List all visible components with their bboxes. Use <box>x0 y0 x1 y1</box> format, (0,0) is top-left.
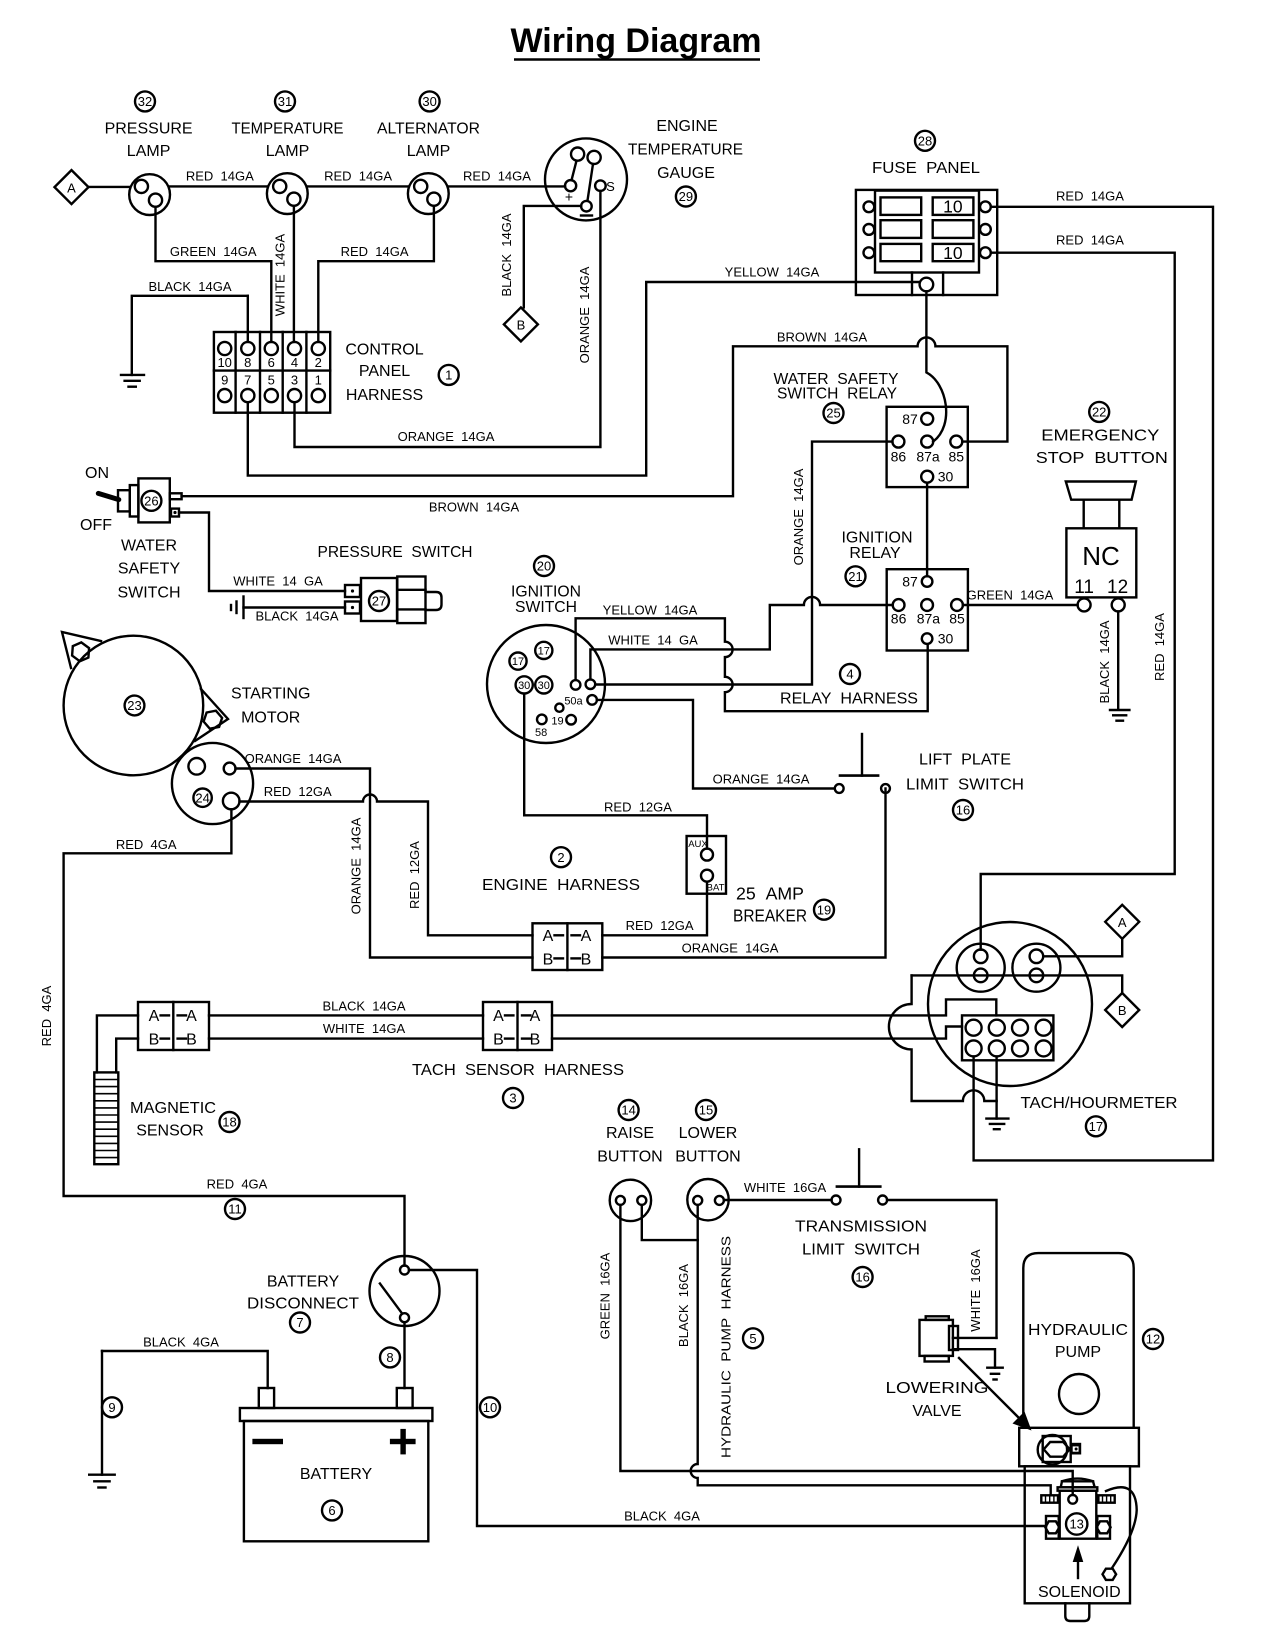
svg-text:HYDRAULIC: HYDRAULIC <box>1028 1322 1128 1339</box>
svg-text:32: 32 <box>138 94 152 109</box>
svg-text:1: 1 <box>445 368 452 383</box>
svg-text:26: 26 <box>144 493 158 508</box>
svg-text:SWITCH: SWITCH <box>515 599 577 616</box>
svg-text:BUTTON: BUTTON <box>597 1149 662 1166</box>
svg-text:10: 10 <box>943 243 963 263</box>
svg-text:11: 11 <box>1074 577 1094 598</box>
svg-text:23: 23 <box>127 698 141 713</box>
svg-text:A: A <box>493 1008 504 1025</box>
svg-text:3: 3 <box>509 1091 516 1106</box>
svg-text:BATTERY: BATTERY <box>267 1274 340 1291</box>
svg-text:ON: ON <box>85 465 109 482</box>
svg-text:WHITE 16GA: WHITE 16GA <box>744 1180 827 1195</box>
svg-text:10: 10 <box>217 355 231 370</box>
svg-text:YELLOW 14GA: YELLOW 14GA <box>725 265 820 280</box>
svg-text:GREEN 14GA: GREEN 14GA <box>967 588 1054 603</box>
svg-text:5: 5 <box>749 1331 756 1346</box>
svg-text:RED 12GA: RED 12GA <box>264 784 332 799</box>
svg-text:2: 2 <box>315 355 322 370</box>
svg-text:BLACK 14GA: BLACK 14GA <box>499 213 514 296</box>
svg-text:WHITE 14 GA: WHITE 14 GA <box>233 574 323 589</box>
svg-text:BLACK 14GA: BLACK 14GA <box>148 279 231 294</box>
svg-text:LIFT PLATE: LIFT PLATE <box>919 752 1011 769</box>
svg-text:B: B <box>149 1032 160 1049</box>
svg-text:WATER: WATER <box>121 538 177 555</box>
svg-text:HARNESS: HARNESS <box>346 387 423 404</box>
svg-text:SWITCH RELAY: SWITCH RELAY <box>777 386 897 403</box>
svg-text:30: 30 <box>938 631 954 647</box>
svg-text:Wiring Diagram: Wiring Diagram <box>511 22 762 60</box>
svg-text:IGNITION: IGNITION <box>511 584 581 601</box>
svg-text:BREAKER: BREAKER <box>733 906 807 926</box>
svg-text:ORANGE 14GA: ORANGE 14GA <box>398 429 495 444</box>
svg-text:LAMP: LAMP <box>127 143 171 160</box>
svg-text:BLACK 4GA: BLACK 4GA <box>624 1509 700 1524</box>
svg-text:RELAY: RELAY <box>849 545 901 562</box>
svg-text:19: 19 <box>817 902 831 917</box>
svg-text:MAGNETIC: MAGNETIC <box>130 1100 216 1117</box>
svg-text:LAMP: LAMP <box>407 143 451 160</box>
svg-text:IGNITION: IGNITION <box>841 530 912 547</box>
svg-text:86: 86 <box>891 449 907 465</box>
svg-text:A: A <box>186 1008 197 1025</box>
svg-text:ORANGE 14GA: ORANGE 14GA <box>245 751 342 766</box>
svg-text:WHITE 14GA: WHITE 14GA <box>273 234 288 317</box>
svg-text:YELLOW 14GA: YELLOW 14GA <box>603 603 698 618</box>
svg-text:16: 16 <box>855 1270 869 1285</box>
svg-text:12: 12 <box>1107 577 1128 598</box>
svg-text:ORANGE 14GA: ORANGE 14GA <box>682 941 779 956</box>
svg-text:B: B <box>517 318 526 333</box>
svg-text:RED 14GA: RED 14GA <box>1056 233 1124 248</box>
svg-text:+: + <box>565 189 573 205</box>
svg-text:HYDRAULIC PUMP HARNESS: HYDRAULIC PUMP HARNESS <box>719 1236 734 1458</box>
svg-text:ORANGE 14GA: ORANGE 14GA <box>713 772 810 787</box>
svg-text:RED 14GA: RED 14GA <box>1152 613 1167 681</box>
svg-text:17: 17 <box>538 645 550 657</box>
svg-text:RED 12GA: RED 12GA <box>604 800 672 815</box>
svg-text:87a: 87a <box>917 611 941 627</box>
svg-text:VALVE: VALVE <box>912 1403 961 1420</box>
svg-text:27: 27 <box>372 594 386 609</box>
svg-text:RED 4GA: RED 4GA <box>116 837 177 852</box>
svg-text:28: 28 <box>918 133 932 148</box>
svg-text:BATTERY: BATTERY <box>300 1466 373 1483</box>
svg-text:LAMP: LAMP <box>266 143 310 160</box>
svg-text:RED 14GA: RED 14GA <box>1056 189 1124 204</box>
svg-text:ORANGE 14GA: ORANGE 14GA <box>791 468 806 565</box>
svg-text:CONTROL: CONTROL <box>345 342 423 359</box>
svg-text:B: B <box>581 952 592 969</box>
svg-text:4: 4 <box>846 667 853 682</box>
svg-text:GREEN 16GA: GREEN 16GA <box>598 1252 613 1339</box>
svg-text:9: 9 <box>221 373 228 388</box>
svg-text:6: 6 <box>268 355 275 370</box>
svg-text:TRANSMISSION: TRANSMISSION <box>795 1219 927 1236</box>
svg-text:7: 7 <box>296 1315 303 1330</box>
svg-text:11: 11 <box>228 1202 242 1217</box>
svg-text:5: 5 <box>268 373 275 388</box>
svg-text:TEMPERATURE: TEMPERATURE <box>628 142 743 159</box>
svg-text:85: 85 <box>949 611 965 627</box>
svg-text:B: B <box>493 1032 504 1049</box>
svg-text:10: 10 <box>943 197 963 217</box>
svg-text:SAFETY: SAFETY <box>118 561 181 578</box>
svg-text:B: B <box>543 952 554 969</box>
svg-text:30: 30 <box>422 94 436 109</box>
svg-text:25 AMP: 25 AMP <box>736 884 804 904</box>
svg-text:RED 14GA: RED 14GA <box>324 169 392 184</box>
svg-text:RED 12GA: RED 12GA <box>626 918 694 933</box>
svg-text:13: 13 <box>1069 1517 1083 1532</box>
svg-text:EMERGENCY: EMERGENCY <box>1041 428 1159 445</box>
svg-text:PUMP: PUMP <box>1055 1344 1101 1361</box>
svg-text:B: B <box>1118 1003 1127 1018</box>
svg-text:RED 12GA: RED 12GA <box>407 841 422 909</box>
svg-text:ORANGE 14GA: ORANGE 14GA <box>577 266 592 363</box>
svg-text:9: 9 <box>108 1400 115 1415</box>
svg-text:BROWN 14GA: BROWN 14GA <box>777 330 868 345</box>
svg-text:RED 14GA: RED 14GA <box>341 244 409 259</box>
svg-text:TEMPERATURE: TEMPERATURE <box>232 120 344 137</box>
svg-text:SOLENOID: SOLENOID <box>1038 1584 1121 1601</box>
svg-text:58: 58 <box>535 727 547 739</box>
svg-text:FUSE PANEL: FUSE PANEL <box>872 160 980 177</box>
svg-text:TACH SENSOR HARNESS: TACH SENSOR HARNESS <box>412 1062 624 1079</box>
svg-text:3: 3 <box>291 373 298 388</box>
svg-text:S: S <box>606 179 615 194</box>
svg-text:B: B <box>186 1032 197 1049</box>
svg-text:30: 30 <box>538 680 550 692</box>
svg-text:RED 14GA: RED 14GA <box>186 169 254 184</box>
svg-text:31: 31 <box>278 94 292 109</box>
svg-text:PRESSURE SWITCH: PRESSURE SWITCH <box>318 544 473 561</box>
svg-text:RED 4GA: RED 4GA <box>39 985 54 1046</box>
svg-text:GREEN 14GA: GREEN 14GA <box>170 244 257 259</box>
svg-text:BLACK 14GA: BLACK 14GA <box>255 609 338 624</box>
svg-text:30: 30 <box>938 469 954 485</box>
svg-text:10: 10 <box>483 1400 497 1415</box>
svg-text:87a: 87a <box>916 449 940 465</box>
svg-text:87: 87 <box>902 411 918 427</box>
svg-text:TACH/HOURMETER: TACH/HOURMETER <box>1021 1095 1178 1112</box>
svg-text:RAISE: RAISE <box>606 1125 654 1142</box>
svg-text:WHITE 14GA: WHITE 14GA <box>323 1021 406 1036</box>
svg-text:RED 14GA: RED 14GA <box>463 169 531 184</box>
svg-text:16: 16 <box>956 803 970 818</box>
svg-text:MOTOR: MOTOR <box>241 710 300 727</box>
svg-text:ENGINE: ENGINE <box>656 118 717 135</box>
svg-text:ENGINE HARNESS: ENGINE HARNESS <box>482 877 640 894</box>
svg-text:17: 17 <box>512 656 524 668</box>
svg-text:21: 21 <box>848 569 862 584</box>
svg-text:29: 29 <box>679 189 693 204</box>
svg-text:8: 8 <box>244 355 251 370</box>
svg-text:BLACK 4GA: BLACK 4GA <box>143 1335 219 1350</box>
svg-text:15: 15 <box>699 1103 713 1118</box>
svg-text:LIMIT SWITCH: LIMIT SWITCH <box>906 777 1024 794</box>
svg-text:BLACK 14GA: BLACK 14GA <box>322 999 405 1014</box>
svg-text:LOWER: LOWER <box>679 1125 738 1142</box>
svg-text:PRESSURE: PRESSURE <box>105 120 193 137</box>
svg-text:7: 7 <box>244 373 251 388</box>
svg-text:A: A <box>1118 915 1127 930</box>
svg-text:RELAY HARNESS: RELAY HARNESS <box>780 691 918 708</box>
svg-text:8: 8 <box>386 1350 393 1365</box>
svg-text:GAUGE: GAUGE <box>657 165 715 182</box>
svg-text:BUTTON: BUTTON <box>675 1149 740 1166</box>
svg-text:A: A <box>67 180 76 195</box>
svg-text:25: 25 <box>826 406 840 421</box>
svg-text:A: A <box>149 1008 160 1025</box>
svg-text:STARTING: STARTING <box>231 685 310 702</box>
svg-text:19: 19 <box>551 716 563 728</box>
svg-text:4: 4 <box>291 355 298 370</box>
svg-text:STOP BUTTON: STOP BUTTON <box>1036 450 1168 467</box>
svg-text:B: B <box>530 1032 541 1049</box>
svg-text:OFF: OFF <box>80 517 112 534</box>
svg-text:12: 12 <box>1146 1332 1160 1347</box>
svg-text:DISCONNECT: DISCONNECT <box>247 1296 359 1313</box>
svg-text:85: 85 <box>949 449 965 465</box>
svg-text:SENSOR: SENSOR <box>136 1123 204 1140</box>
svg-text:20: 20 <box>537 559 551 574</box>
svg-text:18: 18 <box>222 1115 236 1130</box>
svg-text:WHITE 16GA: WHITE 16GA <box>968 1249 983 1332</box>
svg-text:2: 2 <box>557 850 564 865</box>
svg-text:BAT: BAT <box>707 883 725 894</box>
svg-text:RED 4GA: RED 4GA <box>207 1177 268 1192</box>
svg-text:22: 22 <box>1092 405 1106 420</box>
svg-text:24: 24 <box>195 790 209 805</box>
svg-text:17: 17 <box>1089 1119 1103 1134</box>
svg-text:LOWERING: LOWERING <box>886 1380 989 1397</box>
svg-text:A: A <box>581 928 592 945</box>
svg-text:1: 1 <box>315 373 322 388</box>
svg-text:6: 6 <box>328 1503 335 1518</box>
svg-text:LIMIT SWITCH: LIMIT SWITCH <box>802 1242 920 1259</box>
svg-text:WHITE 14 GA: WHITE 14 GA <box>608 633 698 648</box>
svg-text:BROWN 14GA: BROWN 14GA <box>429 500 520 515</box>
svg-text:ALTERNATOR: ALTERNATOR <box>377 120 480 137</box>
svg-text:PANEL: PANEL <box>359 363 410 380</box>
svg-text:86: 86 <box>891 611 907 627</box>
svg-text:BLACK 16GA: BLACK 16GA <box>676 1264 691 1347</box>
svg-text:14: 14 <box>621 1103 635 1118</box>
svg-text:50a: 50a <box>564 696 583 708</box>
svg-text:30: 30 <box>518 680 530 692</box>
svg-text:ORANGE 14GA: ORANGE 14GA <box>349 817 364 914</box>
svg-text:BLACK 14GA: BLACK 14GA <box>1097 620 1112 703</box>
svg-text:NC: NC <box>1082 541 1120 571</box>
svg-text:SWITCH: SWITCH <box>117 585 180 602</box>
svg-text:87: 87 <box>902 574 918 590</box>
svg-text:A: A <box>543 928 554 945</box>
